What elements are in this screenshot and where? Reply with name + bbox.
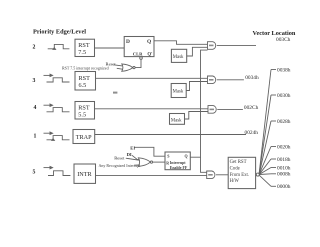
wire OR output to CLR [135, 59, 141, 67]
wire FF Q to AND gate G1 [154, 41, 208, 45]
tick 0010h [271, 167, 276, 169]
box RST 5.5 [75, 102, 95, 120]
CLR bubble [140, 57, 143, 60]
svg-text:RST: RST [79, 75, 91, 82]
svg-text:EI: EI [130, 146, 135, 151]
OR gate G6 (IE reset) [138, 158, 152, 167]
box RST 6.5 [75, 72, 96, 91]
label ACD faint [113, 92, 117, 94]
svg-text:002Ch: 002Ch [244, 105, 259, 111]
svg-text:Reset: Reset [114, 155, 125, 160]
OR gate G5 (clear logic) [122, 64, 135, 71]
waveform TRAP edge+level [44, 132, 70, 140]
svg-text:0018h: 0018h [277, 157, 291, 163]
tick 0030h [271, 94, 276, 96]
svg-text:6.5: 6.5 [79, 82, 87, 89]
wire RST5.5 to AND gate G3 [95, 108, 209, 110]
wire EI to S input [135, 147, 166, 156]
svg-text:Mask: Mask [173, 55, 184, 60]
wire G2 output [217, 79, 244, 81]
svg-text:INTR: INTR [77, 171, 92, 178]
wire AnyRecognized to OR gate G6 [134, 164, 139, 166]
mask box M1 [171, 49, 186, 62]
box Get RST Code From Ext. H/W [228, 157, 255, 188]
svg-text:003Ch: 003Ch [276, 37, 291, 43]
svg-text:Q: Q [147, 39, 151, 45]
svg-text:Enable FF: Enable FF [170, 166, 188, 170]
tick 0038h [271, 69, 276, 71]
svg-text:Code: Code [230, 167, 240, 172]
wire IE Q to vertical enable bus [190, 50, 207, 157]
fan wire to 0000h [259, 175, 271, 186]
interrupt enable FF U2 [165, 152, 190, 170]
svg-text:H/W: H/W [230, 179, 240, 184]
box TRAP [73, 130, 95, 144]
fan wire to 0018h [259, 159, 271, 174]
D flip-flop U1 [124, 37, 154, 57]
svg-text:7.5: 7.5 [78, 49, 86, 56]
svg-text:5: 5 [33, 170, 36, 176]
wire G3 output [217, 108, 243, 110]
svg-text:0000h: 0000h [277, 184, 291, 190]
svg-text:0020h: 0020h [277, 144, 291, 150]
waveform RST5.5 level arrow [44, 104, 70, 112]
wire recognized to OR gate [117, 67, 123, 70]
svg-text:TRAP: TRAP [76, 134, 92, 141]
wire Mask1 to AND gate G1 [187, 47, 208, 56]
svg-text:RST: RST [78, 105, 90, 112]
wire RST7.5 to D flip-flop [95, 47, 125, 49]
svg-text:Mask: Mask [171, 119, 182, 124]
svg-text:Get RST: Get RST [230, 160, 247, 165]
fan wire to 0038h [259, 70, 271, 174]
svg-text:3: 3 [33, 78, 36, 84]
wire DI to OR gate G6 [132, 155, 139, 159]
svg-text:0010h: 0010h [277, 165, 291, 171]
wire Reset to OR gate [114, 65, 123, 66]
fan wire to 0010h [259, 168, 271, 175]
wire G6 output to R input [153, 161, 165, 163]
svg-text:0028h: 0028h [277, 119, 291, 125]
node vector select [256, 173, 259, 176]
svg-text:RST 7.5 interrupt recognized: RST 7.5 interrupt recognized [62, 65, 109, 70]
wire RST6.5 to AND gate G2 [96, 77, 208, 79]
wire Reset to OR gate G6 [126, 158, 139, 160]
fan wire to 0028h [259, 121, 271, 174]
tick 0000h [271, 185, 276, 187]
svg-text:0024h: 0024h [245, 130, 259, 136]
fan wire to 0030h [259, 95, 271, 174]
svg-text:0030h: 0030h [277, 93, 291, 99]
wire G1 output [217, 44, 256, 46]
svg-text:D: D [126, 39, 130, 45]
svg-text:Mask: Mask [173, 90, 184, 95]
waveform RST6.5 level arrow [44, 74, 70, 82]
fan wire to 0020h [259, 147, 271, 175]
wire INTR to AND gate G4 [96, 174, 207, 176]
tick 0028h [271, 120, 276, 122]
waveform RST7.5 edge pulse [48, 44, 70, 49]
svg-text:Q: Q [185, 153, 188, 158]
svg-text:2: 2 [33, 45, 36, 51]
wire Mask3 to AND gate G3 [185, 112, 209, 120]
AND gate G2 [208, 76, 216, 84]
svg-text:4: 4 [34, 105, 37, 111]
svg-text:CLR: CLR [133, 52, 143, 57]
svg-text:0034h: 0034h [245, 75, 259, 81]
tick 0020h [271, 146, 276, 148]
wire G4 output to Get RST Code box [216, 174, 228, 176]
svg-text:DI: DI [127, 152, 132, 157]
svg-text:From Ext.: From Ext. [230, 173, 249, 178]
svg-text:0038h: 0038h [277, 67, 291, 73]
svg-text:1: 1 [34, 134, 37, 140]
box RST 7.5 [75, 39, 95, 56]
svg-text:R: R [166, 162, 169, 166]
mask box M2 [171, 84, 186, 98]
svg-text:0008h: 0008h [277, 172, 291, 178]
fan wire to 0008h [259, 173, 271, 176]
svg-text:Priority Edge/Level: Priority Edge/Level [33, 29, 86, 36]
mask box M3 [170, 114, 185, 125]
AND gate G1 [208, 42, 216, 50]
AND gate G3 [208, 106, 216, 114]
wire enable bus to INTR gate [201, 157, 207, 172]
wire TRAP vector line [95, 134, 246, 136]
tick 0018h [271, 158, 276, 160]
waveform INTR level arrow [44, 166, 71, 175]
svg-text:Q': Q' [147, 53, 152, 58]
svg-text:Interrupt: Interrupt [170, 161, 186, 165]
svg-text:5.5: 5.5 [78, 112, 86, 119]
svg-text:RST: RST [78, 42, 90, 49]
wire Mask2 to AND gate G2 [186, 82, 207, 91]
svg-text:Vector Location: Vector Location [253, 30, 296, 37]
AND gate G4 [207, 171, 215, 179]
box INTR [74, 164, 96, 183]
tick 0008h [271, 173, 276, 175]
